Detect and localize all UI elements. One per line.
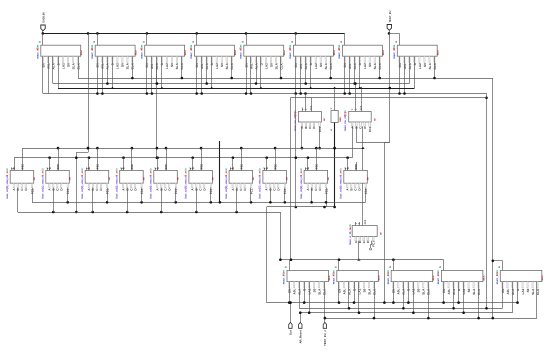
wire G stub U1	[42, 33, 44, 45]
svg-text:Gate_A_16_mcG: Gate_A_16_mcG	[349, 224, 352, 245]
svg-text:LA2: LA2	[357, 288, 361, 294]
svg-text:ALA: ALA	[155, 62, 159, 69]
svg-text:LA2: LA2	[363, 63, 367, 69]
svg-text:A0L: A0L	[342, 289, 346, 295]
wire jog x88->x76.3	[76, 152, 88, 154]
svg-text:ALA: ALA	[452, 288, 456, 295]
svg-text:iBLA: iBLA	[541, 275, 544, 281]
IC U12 Gate_ctr	[42, 163, 72, 199]
svg-text:iBLA: iBLA	[432, 275, 435, 281]
svg-text:AR: AR	[33, 177, 36, 181]
wire right riser x486.5 (EN bus down)	[486, 94, 488, 309]
terminal P1 GA20.90 (top-left input)	[41, 12, 46, 31]
svg-text:LA2: LA2	[462, 288, 466, 294]
wires U16 FC1/B drops	[197, 188, 211, 212]
svg-text:TEST_FU: TEST_FU	[389, 10, 392, 22]
svg-text:Gate_ctr[3]_entry:40_mGt: Gate_ctr[3]_entry:40_mGt	[116, 168, 119, 199]
svg-text:GA20.90: GA20.90	[42, 12, 45, 23]
svg-text:S0: S0	[362, 288, 366, 292]
wire G stub U23	[338, 260, 340, 271]
wire U10 FC0 riser to D bus	[361, 88, 363, 112]
wires U6 pins to buses	[296, 56, 331, 93]
wires U12 S/FC0 risers	[50, 148, 59, 170]
svg-text:iBLA: iBLA	[482, 275, 485, 281]
svg-text:S: S	[231, 167, 235, 169]
IC U26 macro_cnt	[496, 266, 544, 295]
svg-text:iBLA: iBLA	[283, 50, 286, 56]
svg-text:AR: AR	[367, 177, 370, 181]
svg-text:EN: EN	[41, 62, 45, 67]
wires U17 S/FC0 risers	[233, 148, 242, 170]
svg-text:CLK: CLK	[279, 62, 283, 69]
svg-text:AR: AR	[327, 177, 330, 181]
svg-text:S0: S0	[170, 63, 174, 67]
wires U19 FC1/B drops	[310, 188, 327, 207]
svg-text:macr_40Im: macr_40Im	[387, 270, 390, 285]
wires U12 FC1/B drops	[54, 188, 68, 212]
mid lower bus B y212	[18, 212, 281, 214]
svg-text:A: A	[330, 129, 333, 131]
svg-text:S0: S0	[467, 288, 471, 292]
wire terminal P1 to top bus	[42, 31, 44, 34]
wires U11 S/FC0 risers	[15, 148, 23, 170]
wire G stub U5	[246, 33, 248, 45]
svg-text:LA2: LA2	[215, 63, 219, 69]
svg-text:A0L: A0L	[200, 63, 204, 69]
svg-text:iBLA: iBLA	[234, 50, 237, 56]
IC U10 (mux right)	[344, 105, 376, 132]
wire TEST_FU long vertical with jog	[389, 33, 391, 142]
svg-text:iBLA: iBLA	[382, 50, 385, 56]
svg-text:FC1: FC1	[283, 188, 287, 194]
svg-text:A0L: A0L	[506, 289, 510, 295]
wires U1 pins to buses	[43, 56, 79, 93]
wire terminal P3 Out stub	[290, 303, 292, 323]
svg-text:AR_Reset: AR_Reset	[299, 330, 303, 343]
IC U5 macro_cnt	[239, 41, 286, 70]
svg-text:FC1: FC1	[249, 188, 253, 194]
wires U20 S/FC0 risers	[348, 158, 357, 171]
svg-text:Gate_ctr[2]_entry:40_mGt: Gate_ctr[2]_entry:40_mGt	[81, 168, 84, 199]
svg-text:SLA: SLA	[367, 288, 371, 295]
IC U23 macro_cnt	[332, 266, 380, 295]
svg-text:Gate_ctr[6]_entry:40_mGt: Gate_ctr[6]_entry:40_mGt	[225, 168, 228, 199]
svg-text:AR: AR	[108, 177, 111, 181]
IC U25 macro_cnt	[437, 266, 485, 295]
svg-text:G: G	[38, 41, 41, 43]
no-connect stub U21 pin A	[371, 241, 373, 245]
svg-text:SLA: SLA	[324, 62, 328, 69]
svg-text:TEST_FU_J: TEST_FU_J	[323, 330, 327, 346]
svg-text:ALA: ALA	[304, 62, 308, 69]
wire G stub U3	[146, 33, 148, 45]
svg-text:S0: S0	[269, 63, 273, 67]
svg-text:EN: EN	[343, 62, 347, 67]
svg-text:iBLA: iBLA	[437, 50, 440, 56]
wire TEST_FU drop	[389, 30, 391, 33]
svg-text:AR: AR	[252, 177, 255, 181]
wire U9 FC0 riser + L	[311, 98, 313, 112]
svg-text:macr_40Im: macr_40Im	[496, 270, 499, 285]
IC U7 macro_cnt	[338, 41, 385, 70]
part X1 (buffer, vertical)	[330, 107, 342, 131]
svg-text:CLK: CLK	[180, 62, 184, 69]
svg-text:S: S	[265, 167, 269, 169]
svg-text:Out: Out	[289, 330, 293, 335]
wires U13 FC1/B drops	[93, 188, 108, 212]
bottom bus D y318.1	[324, 318, 537, 320]
wire X1 A down through mid row (thick)	[334, 123, 336, 208]
svg-text:SLA: SLA	[225, 62, 229, 69]
wire G stub U26 via riser x492.8	[502, 261, 504, 271]
wires U23 pins to bottom buses	[339, 282, 375, 319]
wire drop x291 to bottom bus	[290, 98, 292, 260]
terminal P4 AR_Reset	[299, 322, 303, 343]
svg-text:macr_40Im: macr_40Im	[338, 44, 341, 59]
svg-text:ALA: ALA	[205, 62, 209, 69]
svg-text:ml: ml	[373, 118, 376, 121]
svg-text:S0: S0	[313, 288, 317, 292]
svg-text:SLA: SLA	[126, 62, 130, 69]
svg-text:Gate_mx_40[1]G: Gate_mx_40[1]G	[344, 111, 347, 132]
wires U22 pins to bottom buses	[290, 282, 325, 319]
svg-text:S0: S0	[220, 63, 224, 67]
terminal P5 TEST_FU	[323, 322, 327, 345]
wire U9 A down to bus A	[301, 126, 303, 148]
svg-text:SLA: SLA	[472, 288, 476, 295]
IC U3 macro_cnt	[140, 41, 187, 70]
IC U2 macro_cnt	[91, 41, 138, 70]
bus ALA y83.5	[53, 83, 410, 85]
wires U17 FC1/B drops	[237, 188, 251, 212]
svg-text:macr_40Im: macr_40Im	[283, 270, 286, 285]
wires U2 pins to buses	[98, 56, 133, 93]
svg-text:FC0: FC0	[130, 163, 134, 169]
svg-text:macr_40Im: macr_40Im	[91, 44, 94, 59]
svg-text:G: G	[498, 266, 501, 268]
wires U4 pins to buses	[197, 56, 232, 93]
svg-text:G: G	[395, 41, 398, 43]
svg-text:GRU: GRU	[339, 117, 342, 122]
wires U19 S/FC0 risers	[308, 148, 317, 170]
wire X1 Y up to D bus	[334, 88, 336, 111]
svg-text:G: G	[389, 266, 392, 268]
svg-text:S0: S0	[66, 63, 70, 67]
wire bus FC y97.8 segment	[290, 97, 486, 99]
svg-text:FC1: FC1	[372, 241, 376, 247]
wire U10 A down to mid bus B	[352, 126, 354, 158]
svg-text:Gate_ctr[9]_entry:40_mGt: Gate_ctr[9]_entry:40_mGt	[340, 168, 343, 199]
svg-text:G: G	[291, 41, 294, 43]
wire terminal P4 AR_Reset stub	[300, 313, 302, 323]
svg-text:SLA: SLA	[318, 288, 322, 295]
bottom top-bus y259.7	[280, 259, 443, 261]
wire G stub U22	[289, 260, 291, 271]
svg-text:EN: EN	[337, 288, 341, 293]
svg-text:CLK: CLK	[477, 288, 481, 295]
svg-text:G: G	[241, 41, 244, 43]
IC U4 macro_cnt	[190, 41, 237, 70]
wires U24 pins to bottom buses	[394, 282, 429, 319]
wire G stub U24	[393, 260, 395, 271]
svg-text:FC1: FC1	[174, 188, 178, 194]
IC U6 macro_cnt	[289, 41, 336, 70]
svg-text:LA2: LA2	[264, 63, 268, 69]
wires U14 FC1/B drops	[128, 188, 142, 212]
wires U16 S/FC0 risers	[193, 148, 202, 170]
wire terminal P5 TEST_FU stub	[324, 318, 326, 322]
IC U21 Gate_A_16	[349, 219, 383, 247]
wire G stub U4	[196, 33, 198, 45]
svg-text:ALA: ALA	[51, 62, 55, 69]
wires U20 FC1/B drops	[365, 188, 367, 203]
IC U14 Gate_ctr	[116, 163, 146, 199]
wire U9 S to EN bus	[305, 94, 307, 112]
svg-text:SLA: SLA	[71, 62, 75, 69]
svg-text:LA2: LA2	[521, 288, 525, 294]
junction top bus drop x88	[87, 32, 90, 35]
wire U9 FC1 down to bus A	[319, 126, 321, 148]
IC U8 macro_cnt	[393, 41, 440, 70]
svg-text:iBLA: iBLA	[80, 50, 83, 56]
svg-text:macr_40Im: macr_40Im	[190, 44, 193, 59]
wire U10 S to ALA bus	[355, 84, 357, 112]
svg-text:AR: AR	[177, 177, 180, 181]
svg-text:LA2: LA2	[61, 63, 65, 69]
IC U22 macro_cnt	[283, 266, 331, 295]
svg-text:ml: ml	[379, 232, 382, 235]
svg-text:G: G	[439, 266, 442, 268]
svg-text:iBLA: iBLA	[184, 50, 187, 56]
svg-text:EN: EN	[442, 288, 446, 293]
svg-text:Gate_ctr[8]_entry:40_mGt: Gate_ctr[8]_entry:40_mGt	[300, 168, 303, 199]
svg-text:LA2: LA2	[314, 63, 318, 69]
svg-text:FC1: FC1	[209, 188, 213, 194]
wire drop x156.9 (U3 ALA) to mid bus B	[156, 63, 158, 158]
bottom bus A y302.6	[267, 302, 518, 304]
svg-text:FC1: FC1	[364, 188, 368, 194]
wire G stub U6	[295, 33, 297, 45]
bus EN y93.5	[43, 93, 487, 95]
svg-text:S0: S0	[423, 63, 427, 67]
svg-text:CLK: CLK	[378, 62, 382, 69]
wire drop x88 top-bus to mid bus A	[88, 33, 90, 152]
bus CLK y78	[78, 78, 493, 80]
svg-text:FC1: FC1	[368, 126, 372, 132]
svg-text:macr_40Im: macr_40Im	[36, 44, 39, 59]
svg-text:Gate_ctr[4]_entry:40_mGt: Gate_ctr[4]_entry:40_mGt	[150, 168, 153, 199]
mid lower bus FC1 y202.3	[32, 202, 366, 204]
svg-text:macr_40Im: macr_40Im	[239, 44, 242, 59]
mid bus A y148	[22, 148, 363, 150]
svg-text:ALA: ALA	[353, 62, 357, 69]
svg-text:G: G	[142, 41, 145, 43]
svg-text:AR: AR	[286, 177, 289, 181]
svg-text:A0L: A0L	[249, 63, 253, 69]
svg-text:macr_40Im: macr_40Im	[437, 270, 440, 285]
wires U18 FC1/B drops	[269, 188, 284, 204]
svg-text:S0: S0	[368, 63, 372, 67]
svg-text:SLA: SLA	[175, 62, 179, 69]
svg-text:G: G	[334, 266, 337, 268]
svg-text:LA2: LA2	[418, 63, 422, 69]
bottom bus C y312.7	[300, 312, 512, 314]
IC U20 Gate_ctr	[340, 163, 370, 199]
svg-text:S0: S0	[319, 63, 323, 67]
IC U13 Gate_ctr	[81, 163, 111, 199]
svg-text:EN: EN	[195, 62, 199, 67]
IC U9 (mux left)	[294, 105, 326, 132]
svg-text:macr_40Im: macr_40Im	[332, 270, 335, 285]
IC U15 Gate_ctr	[150, 163, 180, 199]
svg-text:SLA: SLA	[428, 62, 432, 69]
bus aux y207	[267, 206, 335, 208]
svg-text:Gate_ctr[7]_entry:40_mGt: Gate_ctr[7]_entry:40_mGt	[259, 168, 262, 199]
svg-text:G: G	[285, 266, 288, 268]
svg-text:iBLA: iBLA	[135, 50, 138, 56]
svg-text:Gate_ctr[1]_entry:40_mGt: Gate_ctr[1]_entry:40_mGt	[42, 168, 45, 199]
wire U10 D down to U21 FC0	[362, 126, 364, 225]
svg-text:macr_40Im: macr_40Im	[140, 44, 143, 59]
wires U8 pins to buses	[400, 56, 435, 93]
wire G stub U7	[344, 33, 346, 45]
svg-text:EN: EN	[294, 62, 298, 67]
svg-text:SLA: SLA	[531, 288, 535, 295]
svg-text:A0L: A0L	[397, 289, 401, 295]
svg-text:S0: S0	[121, 63, 125, 67]
terminal P3 Out	[289, 322, 293, 335]
wire U21 B pin down to bottom top-bus	[358, 241, 360, 260]
wires U7 pins to buses	[345, 56, 380, 93]
wires U3 pins to buses	[147, 56, 182, 93]
svg-text:SLA: SLA	[422, 288, 426, 295]
svg-text:A0L: A0L	[150, 63, 154, 69]
IC U16 Gate_ctr	[185, 163, 215, 199]
svg-text:S: S	[191, 167, 195, 169]
mid bus B y157.7	[14, 157, 352, 159]
IC U18 Gate_ctr	[259, 163, 289, 199]
svg-text:G: G	[93, 41, 96, 43]
wire thick vertical x219.9	[219, 141, 221, 202]
svg-text:FC1: FC1	[140, 188, 144, 194]
svg-text:A0L: A0L	[293, 289, 297, 295]
svg-text:LA2: LA2	[165, 63, 169, 69]
svg-text:LA2: LA2	[116, 63, 120, 69]
svg-text:A0L: A0L	[348, 63, 352, 69]
wires U13 S/FC0 risers	[89, 148, 98, 170]
svg-text:SLA: SLA	[373, 62, 377, 69]
wires U15 FC1/B drops	[162, 188, 176, 212]
svg-text:FC1: FC1	[66, 188, 70, 194]
wire U10 B down to y142 and right to TEST jog	[356, 126, 358, 142]
wire G stub U25	[443, 260, 445, 271]
svg-text:A0L: A0L	[299, 63, 303, 69]
wire TEST_FU jog to U8	[389, 33, 400, 35]
svg-text:CLK: CLK	[329, 62, 333, 69]
svg-text:EN: EN	[145, 62, 149, 67]
wires U25 pins to bottom buses	[444, 282, 479, 319]
wire U9 Y stub	[302, 108, 304, 112]
wire U6-EN net drop x295.8	[295, 94, 297, 208]
svg-text:G: G	[340, 41, 343, 43]
wire G stub U2	[97, 33, 99, 45]
svg-text:Gate_ctr[0]_entry:40_mGt: Gate_ctr[0]_entry:40_mGt	[6, 168, 9, 199]
svg-text:ALA: ALA	[347, 288, 351, 295]
svg-text:A0L: A0L	[447, 289, 451, 295]
svg-text:iBLA: iBLA	[378, 275, 381, 281]
IC U11 Gate_ctr	[6, 163, 36, 199]
svg-text:S0: S0	[417, 288, 421, 292]
svg-text:S: S	[306, 167, 310, 169]
IC U1 macro_cnt	[36, 41, 83, 70]
wires U14 S/FC0 risers	[124, 148, 132, 170]
IC U17 Gate_ctr	[225, 163, 255, 199]
svg-text:AR: AR	[212, 177, 215, 181]
svg-text:macr_40Im: macr_40Im	[393, 44, 396, 59]
wires U15 S/FC0 risers	[158, 148, 167, 170]
wires U11 FC1/B drops	[18, 188, 33, 212]
bus D y88 (thick)	[58, 88, 415, 90]
svg-text:AR: AR	[69, 177, 72, 181]
bottom bus B y308.3	[299, 308, 502, 310]
svg-text:AR: AR	[142, 177, 145, 181]
terminal P2 TEST_FU (top)	[387, 10, 392, 30]
svg-text:iBLA: iBLA	[333, 50, 336, 56]
svg-text:macr_40Im: macr_40Im	[289, 44, 292, 59]
IC U24 macro_cnt	[387, 266, 435, 295]
svg-text:FC0: FC0	[364, 219, 367, 224]
wires U5 pins to buses	[247, 56, 281, 93]
svg-text:CLK: CLK	[230, 62, 234, 69]
svg-text:SLA: SLA	[274, 62, 278, 69]
wires U26 pins to bottom buses (corners)	[503, 282, 537, 319]
IC U19 Gate_ctr	[300, 163, 330, 199]
wire staircase to bottom-left	[266, 207, 268, 303]
svg-text:Gate_ctr[5]_entry:40_mGt: Gate_ctr[5]_entry:40_mGt	[185, 168, 188, 199]
svg-text:S0: S0	[526, 288, 530, 292]
svg-text:ml: ml	[323, 118, 326, 121]
net G top bus	[43, 33, 345, 35]
svg-text:S: S	[87, 167, 91, 169]
wires U18 S/FC0 risers	[267, 148, 276, 170]
wire right riser x492.8 (CLK bus down)	[492, 78, 494, 318]
svg-text:G: G	[192, 41, 195, 43]
svg-text:iBLA: iBLA	[328, 275, 331, 281]
